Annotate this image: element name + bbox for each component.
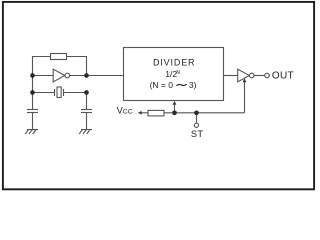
node junction divider control bbox=[172, 110, 177, 115]
node junction ST bbox=[194, 110, 199, 115]
resistor R2 (pull-up) bbox=[148, 110, 164, 116]
node junction right rail / crystal bbox=[84, 90, 89, 95]
wire: riser up to inverter U3 enable arrow bbox=[244, 82, 246, 113]
wire: control stub up to divider pin bbox=[174, 104, 176, 112]
capacitor C2 bbox=[81, 110, 92, 113]
arrowhead into divider control pin bbox=[173, 101, 177, 105]
wire: divider output to inverter U3 bbox=[224, 75, 238, 77]
svg-text:DIVIDER: DIVIDER bbox=[153, 57, 195, 67]
inverter U1 (oscillator) bbox=[53, 69, 69, 82]
label ST bbox=[191, 129, 204, 139]
crystal X1 bbox=[55, 87, 64, 98]
wire: Vcc arrowhead to resistor R2 bbox=[141, 112, 149, 114]
wire: capacitor C1 to ground bbox=[32, 113, 34, 130]
svg-text:(N = 0: (N = 0 bbox=[150, 80, 174, 90]
wire: capacitor C2 to ground bbox=[86, 113, 88, 130]
label 3) right part bbox=[189, 80, 197, 90]
node junction left rail / U1 input bbox=[30, 73, 35, 78]
svg-text:ST: ST bbox=[191, 129, 204, 139]
wire: inverter U3 to OUT terminal bbox=[254, 75, 265, 77]
wire: resistor R2 along ST rail to riser bbox=[164, 112, 245, 114]
wire: inverter U1 output to right rail bbox=[70, 75, 87, 77]
ground (right) bbox=[79, 130, 92, 135]
wire: left rail down to capacitor C1 bbox=[32, 93, 34, 110]
inverter U3 (output buffer) bbox=[238, 69, 254, 82]
svg-text:3): 3) bbox=[189, 80, 197, 90]
wire: right rail down to capacitor C2 bbox=[86, 93, 88, 110]
wire: oscillator feedback loop top bbox=[33, 57, 87, 76]
label (N = 0 left part bbox=[150, 80, 174, 90]
border frame (decorative) bbox=[3, 2, 314, 189]
node junction left rail / crystal bbox=[30, 90, 35, 95]
svg-text:OUT: OUT bbox=[272, 71, 294, 82]
ground (left) bbox=[25, 130, 38, 135]
arrowhead pointing to Vcc bbox=[138, 111, 142, 115]
divider U2 box bbox=[124, 48, 224, 101]
node OUT terminal bbox=[265, 73, 270, 78]
node ST terminal bbox=[194, 123, 198, 127]
label 1/2^N bbox=[165, 69, 180, 79]
label swung dash of (N = 0 ~ 3) bbox=[176, 84, 186, 86]
resistor R1 (feedback) bbox=[51, 54, 67, 60]
label DIVIDER bbox=[153, 57, 195, 67]
label OUT bbox=[272, 71, 294, 82]
node junction right rail / U1 output bbox=[84, 73, 89, 78]
wire: right rail to divider input bbox=[87, 75, 124, 77]
wire: ST rail down to ST terminal bbox=[196, 113, 198, 123]
wire: inverter U1 input bbox=[33, 75, 54, 77]
wire: left rail to crystal bbox=[33, 76, 55, 93]
wire: crystal to right rail bbox=[64, 92, 87, 94]
arrowhead into inverter U3 enable bbox=[243, 78, 247, 82]
label Vcc bbox=[117, 106, 133, 116]
capacitor C1 bbox=[27, 110, 38, 113]
